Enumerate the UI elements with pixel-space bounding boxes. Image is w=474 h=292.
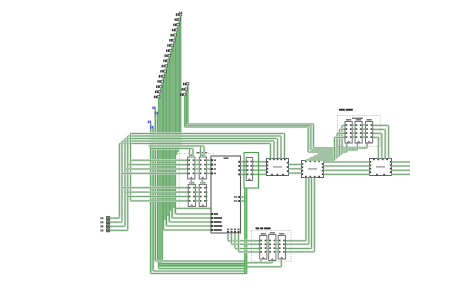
wire LR1 top a (199, 146, 201, 157)
wire timing left stub 2 (337, 132, 345, 134)
wire chip1 chip2 1 (289, 168, 302, 170)
wire bottom bus 2 (160, 264, 247, 267)
wire drop i10 (171, 47, 173, 218)
wire to timing 1 (311, 149, 358, 151)
wire bus row 3 (122, 140, 274, 142)
wire input pin P0 (110, 217, 119, 219)
wire LR to ALU 3 (206, 172, 211, 174)
pin ALU out 1 (238, 165, 240, 167)
wire left riser 4 (118, 144, 120, 219)
wire chip2 chip3 2 (324, 169, 370, 171)
wire bottom bus 1 (161, 262, 247, 265)
label probe b0 (152, 107, 155, 110)
wire LR link b3 (195, 200, 199, 202)
wire ALU result run 0 (228, 240, 260, 242)
wire chip3 out 3 (392, 173, 411, 175)
wire timing to chip2 run 1 (314, 155, 340, 157)
wire timing to chip3 1 (384, 129, 386, 158)
wire ALU control 2 (169, 221, 211, 223)
wire drop i12 (174, 36, 176, 214)
wire ALU out 3 a (241, 173, 247, 175)
wire pico right 0 (285, 240, 306, 242)
wire timing bottom stub 2 (346, 143, 348, 152)
input pin P1 (101, 221, 110, 224)
wire chip2 top 2 (309, 158, 311, 161)
wire down m2 (307, 127, 309, 152)
wire ALU out 0 a (241, 161, 247, 163)
wire timing left stub 3 (335, 136, 345, 138)
wire LR link b0 (195, 187, 199, 189)
op-amp ALU U1 (211, 156, 241, 233)
wire T link b0 (362, 124, 365, 126)
wire input pin P1 (110, 221, 122, 223)
wire drop i2 (160, 88, 162, 264)
wire timing left drop 0 (341, 125, 343, 154)
pin ALU ctrl Subtract (211, 217, 213, 219)
wire drop i0 (158, 98, 160, 268)
wire chip1 top 2 (276, 139, 278, 159)
wire chip2 chip3 3 (324, 173, 370, 175)
wire drop b2 (150, 123, 152, 273)
wire drop i9 (170, 52, 172, 211)
wire bus row 6 (151, 147, 193, 149)
pin ALU bottom 3 (238, 231, 240, 233)
pin ALU out 2 (238, 169, 240, 171)
wire PI link a3 (267, 251, 269, 253)
wire bus row 4 (119, 142, 270, 144)
input pin P0 (101, 217, 110, 220)
wire feedback loop (244, 153, 259, 189)
wire bottom bus 0 (155, 260, 247, 262)
wire LR0 to LR2 (190, 179, 192, 185)
wire LR0 top a (188, 149, 190, 158)
label pin i11 (169, 39, 175, 42)
wire timing to chip2 run 3 (306, 159, 335, 161)
wire timing left stub 0 (342, 124, 345, 126)
wire ALU out 0 b (253, 161, 267, 163)
label pin i2 (156, 85, 162, 88)
wire ALU result run 3 (239, 251, 260, 253)
wire PI link b1 (276, 243, 279, 245)
wire drop i4 (163, 78, 165, 231)
wire chip3 out 1 (392, 165, 411, 167)
register PI2 (277, 233, 287, 259)
wire timing to chip3 3 (377, 137, 379, 158)
register LR2 (187, 182, 197, 206)
wire timing right stub 3 (374, 136, 379, 138)
wire LR to ALU 0 (206, 159, 211, 161)
label pin m1 (182, 88, 188, 91)
label Pico ISA Register title (256, 227, 271, 229)
wire drop m1 (185, 91, 187, 126)
wire drop i6 (165, 67, 167, 226)
wire ALU result drop 3 (237, 233, 239, 252)
label pin i15 (175, 18, 181, 21)
wire ALU result run 2 (235, 247, 260, 249)
group box timing register (338, 115, 381, 146)
wire left riser 0 (129, 134, 131, 201)
label pin i14 (173, 24, 179, 27)
label pin i6 (162, 65, 168, 68)
wire left riser 1 (127, 136, 129, 230)
label pin i10 (167, 44, 173, 47)
wire chip2 down 0 (305, 178, 307, 241)
wire LR link b2 (195, 195, 199, 197)
wire timing left drop 3 (333, 137, 335, 160)
wire bus row 1 (128, 135, 281, 137)
wire chip1 top 4 (283, 134, 285, 159)
group box LR registers (179, 153, 213, 208)
pin ALU aux (238, 200, 240, 202)
wire chip2 down 2 (310, 178, 312, 249)
wire ALU result drop 0 (227, 233, 229, 241)
wire LR to ALU 1 (206, 163, 211, 165)
wire chip2 top 3 (305, 159, 307, 162)
wire chip2 down 3 (313, 178, 315, 252)
wire T link b3 (362, 136, 365, 138)
wire ALU out 2 a (241, 169, 247, 171)
wire chip1 chip2 2 (289, 172, 302, 174)
label pin m0 (183, 83, 189, 86)
wire LR2 clock (191, 207, 193, 209)
wire to timing 2 (308, 151, 347, 153)
wire pico right 3 (285, 251, 314, 253)
wire to timing 0 (314, 147, 368, 149)
wire PI link b2 (276, 247, 279, 249)
wire timing to chip2 run 2 (310, 157, 337, 159)
wire ALU aux out (241, 200, 245, 202)
wire chip1 chip2 0 (289, 163, 302, 165)
wire LR link b1 (195, 191, 199, 193)
wire ALU out 2 b (253, 169, 267, 171)
wire chip2 chip3 0 (324, 161, 370, 163)
wire LR link a2 (195, 168, 199, 170)
pin ALU in 0 (211, 159, 213, 161)
wire input pin P3 (110, 229, 128, 231)
register T2 (364, 119, 374, 143)
wire timing right stub 2 (374, 132, 382, 134)
wire ALU result drop 2 (234, 233, 236, 249)
wire timing right stub 1 (374, 128, 386, 130)
wire pico clock drop P1 (271, 261, 273, 263)
wire chip1 top 1 (273, 141, 275, 159)
input pin P2 (101, 225, 110, 228)
pin ALU ctrl Add (211, 213, 213, 215)
pin ALU ctrl Shift Left (211, 221, 213, 223)
wire chip3 out 2 (392, 169, 411, 171)
label pin i13 (172, 29, 178, 32)
wire ALU out 3 b (253, 173, 267, 175)
label probe b1 (155, 112, 158, 115)
wire pico clock drop P0 (260, 259, 262, 263)
wire timing right stub 0 (374, 124, 389, 126)
wire drop b1 (157, 114, 159, 261)
wire chip3 out 0 (392, 161, 411, 163)
label pin m2 (180, 93, 186, 96)
label pin i1 (155, 91, 161, 94)
register LR0 (186, 155, 196, 179)
pin ALU out 0 (238, 161, 240, 163)
wire drop b0 (154, 109, 156, 261)
wire timing left stub 1 (340, 128, 345, 130)
wire bus row 0 (131, 132, 285, 134)
wire PI link b3 (276, 251, 279, 253)
pin ALU out 3 (238, 173, 240, 175)
pin ALU bottom 0 (227, 231, 229, 233)
wire left riser 3 (121, 141, 123, 222)
wire bottom bus 4 (153, 270, 245, 272)
wire bus row 2 (125, 137, 278, 139)
wire chip2 down 1 (308, 178, 310, 245)
wire pico clock drop P2 (280, 259, 282, 267)
clock tick top (179, 12, 182, 14)
pin ALU in 2 (211, 168, 213, 170)
wire ALU control 1 (172, 217, 211, 219)
wire chip1 top 0 (269, 144, 271, 159)
wire ALU control 4 (164, 229, 212, 231)
wire drop i14 (177, 26, 179, 152)
chip BUF1 (266, 158, 289, 176)
group box pico isa register (252, 231, 292, 262)
pin ALU bottom 2 (234, 231, 236, 233)
wire LR0 top b (192, 149, 194, 158)
pin ALU in 3 (211, 172, 213, 174)
wire pico right 1 (285, 243, 309, 245)
register PI1 (267, 232, 277, 260)
wire reg row2 feed 2 (128, 195, 189, 197)
register LR3 (198, 182, 208, 206)
label probe b3 (150, 126, 153, 129)
wire ALU control 3 (166, 225, 211, 227)
register T1 (354, 119, 364, 143)
wire drop i7 (167, 62, 169, 216)
wire drop b3 (152, 129, 154, 272)
wire timing left drop 1 (338, 129, 340, 156)
wire chip1 top 3 (280, 136, 282, 159)
wire LR1 to LR3 (201, 179, 203, 185)
wire timing to chip2 run 0 (318, 153, 342, 155)
label Timing Register title (339, 109, 353, 111)
wire top run m2 (185, 126, 308, 128)
wire timing left drop 2 (336, 133, 338, 158)
wire reg row1 feed 3 (122, 172, 188, 174)
wire drop i15 (178, 21, 180, 149)
wire drop i13 (176, 31, 178, 155)
wire ALU control 0 (175, 213, 211, 215)
wire accumulator bus down (245, 188, 247, 274)
wire LR clock rail (176, 207, 211, 209)
wire reg row2 feed 0 (122, 187, 188, 189)
wire LR link a3 (195, 172, 199, 174)
label pin i0 (154, 96, 160, 99)
wire timing to chip3 2 (381, 133, 383, 158)
label pin i5 (160, 70, 166, 73)
wire ALU out 1 b (253, 165, 267, 167)
pin ALU ctrl Compare (211, 229, 213, 231)
wire band underlay for bus bend (184, 124, 348, 150)
wire ALU out 1 a (241, 165, 247, 167)
wire bottom bus 5 (151, 272, 247, 274)
wire PI link a0 (267, 240, 269, 242)
wire PI link b0 (276, 240, 279, 242)
wire chip2 top 1 (313, 156, 315, 161)
wire ALU result drop 1 (230, 233, 232, 244)
wire ALU aux out (241, 196, 245, 198)
wire LR link a1 (195, 163, 199, 165)
label pin i16 (176, 13, 182, 16)
wire timing bottom stub 1 (356, 143, 358, 150)
wire reg row1 feed 1 (128, 163, 188, 165)
wire left riser 2 (124, 139, 126, 227)
wire drop i1 (159, 93, 161, 266)
register PI0 (258, 233, 268, 259)
wire pico right 2 (285, 247, 311, 249)
wire input pin P2 (110, 225, 125, 227)
chip BUF2 (301, 160, 324, 178)
wire T link a0 (352, 124, 355, 126)
pin ALU aux (238, 196, 240, 198)
wire bottom bus 3 (159, 267, 245, 269)
wire down m1 (310, 126, 312, 151)
wire PI link a1 (267, 243, 269, 245)
wire reg row1 feed 2 (125, 168, 188, 170)
wire LR1 top b (203, 146, 205, 157)
wire reg row2 feed 3 (131, 200, 189, 202)
pin ALU bottom 1 (231, 231, 233, 233)
label pin i8 (165, 54, 171, 57)
wire bus row 5 (149, 145, 204, 147)
wire pico clock rail a (248, 262, 273, 264)
wire reg row2 feed 1 (125, 191, 188, 193)
wire timing to chip3 0 (387, 125, 389, 158)
wire timing bottom stub 0 (366, 143, 368, 148)
pin ALU in 1 (211, 164, 213, 166)
register ACC (245, 158, 254, 181)
label pin i7 (163, 60, 169, 63)
wire reg row1 feed 0 (131, 159, 188, 161)
pin ALU ctrl Shift Right (211, 225, 213, 227)
label pin i9 (166, 49, 172, 52)
wire drop m2 (184, 96, 186, 127)
chip BUF3 (369, 158, 392, 176)
wire T link b1 (362, 128, 365, 130)
wire T link a3 (352, 136, 355, 138)
wire T link a2 (352, 132, 355, 134)
wire PI link a2 (267, 247, 269, 249)
wire LR to ALU 2 (206, 168, 211, 170)
label timing inner (352, 118, 363, 119)
wire chip2 chip3 1 (324, 165, 370, 167)
wire drop i5 (164, 72, 166, 220)
label probe b2 (148, 121, 151, 124)
input pin P3 (101, 229, 110, 232)
wire ALU result run 1 (232, 243, 260, 245)
wire pico clock rail b (248, 266, 282, 268)
wire T link b2 (362, 132, 365, 134)
wire drop i8 (168, 57, 170, 222)
label pin i12 (171, 34, 177, 37)
wire down m0 (312, 124, 314, 148)
wire drop i11 (173, 41, 175, 208)
wire T link a1 (352, 128, 355, 130)
label LR Register title (197, 152, 208, 153)
register T0 (344, 119, 354, 143)
wire top run m1 (186, 124, 310, 126)
wire LR link a0 (195, 159, 199, 161)
wire drop i16 (180, 16, 182, 146)
wire top run m0 (188, 123, 314, 125)
register LR1 (198, 155, 208, 179)
wire drop i3 (161, 83, 163, 261)
wire LR3 clock (202, 207, 204, 209)
label pin i3 (157, 80, 163, 83)
wire drop m0 (187, 85, 189, 124)
label pin i4 (159, 75, 165, 78)
wire chip2 top 0 (317, 154, 319, 161)
